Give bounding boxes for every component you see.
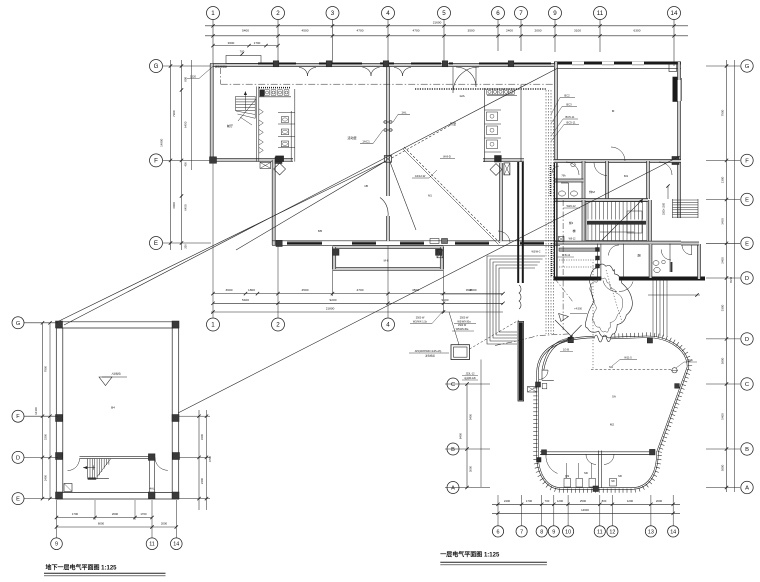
shaft box — [504, 163, 510, 175]
pilaster column 1 — [273, 61, 279, 67]
wall playroom left — [272, 160, 275, 245]
hall node top — [568, 337, 573, 342]
cable label BC5-11 — [551, 115, 578, 136]
right axis circle C — [741, 378, 753, 390]
toilet4 wall — [669, 244, 671, 272]
hall curved wall outer — [538, 337, 689, 489]
vestibule wall — [598, 244, 601, 280]
hall node right — [675, 384, 680, 389]
right axis circle D — [741, 272, 753, 284]
basement bottom extender 14 — [175, 500, 177, 538]
svg-text:4: 4 — [386, 10, 390, 17]
svg-text:11: 11 — [597, 529, 603, 535]
svg-text:3000: 3000 — [721, 464, 725, 471]
label 1AC — [360, 130, 383, 144]
wire leader D3 (basement corner to junction box) — [57, 161, 386, 322]
svg-text:76A: 76A — [561, 175, 566, 178]
left axis line G — [163, 65, 211, 67]
svg-text:A: A — [451, 486, 455, 492]
basement panel box — [64, 484, 72, 492]
left axis circle F — [150, 154, 163, 167]
double door below — [603, 281, 633, 292]
sill fixture 1 — [430, 239, 439, 244]
wire leader D1 (basement corner to right section) — [64, 68, 558, 325]
svg-text:3450: 3450 — [721, 218, 725, 225]
transformer box AP1 — [451, 345, 470, 360]
lower axis circle 11 — [594, 526, 605, 537]
label W11-5 — [612, 356, 637, 367]
mid axis extender 2 — [277, 246, 279, 318]
basement column 3 — [56, 415, 63, 422]
box with X near entrance — [528, 387, 537, 393]
svg-text:7: 7 — [520, 529, 523, 535]
right section interior wall — [554, 160, 681, 163]
lower-left dim chain — [459, 382, 473, 489]
svg-text:1300: 1300 — [721, 176, 725, 183]
label 1AL — [393, 111, 410, 123]
grid line 3 — [332, 20, 334, 66]
axis circle 3 — [326, 7, 339, 20]
accordion door arcs — [519, 285, 521, 309]
svg-text:C: C — [451, 382, 455, 388]
mid axis circle 2 — [272, 318, 285, 331]
lower right side wall — [698, 244, 701, 279]
corridor wall pair — [518, 162, 523, 283]
svg-text:3300: 3300 — [200, 433, 204, 440]
door arc rs-1 — [566, 162, 579, 175]
lower axis circle 7 — [516, 526, 527, 537]
svg-text:发电机组: 发电机组 — [425, 354, 435, 358]
svg-text:14: 14 — [671, 10, 678, 17]
svg-text:3100: 3100 — [574, 28, 581, 32]
svg-text:3: 3 — [331, 10, 335, 17]
corner box mid-right — [672, 157, 679, 165]
svg-text:5: 5 — [442, 10, 446, 17]
right axis circle G — [741, 60, 753, 72]
protrusion room — [333, 246, 444, 271]
wire from box up — [449, 312, 459, 345]
stair labels — [563, 204, 580, 225]
lower axis extender 8 — [541, 495, 543, 526]
svg-text:7900: 7900 — [44, 365, 48, 372]
diamond symbol 1 — [274, 163, 286, 175]
entrance curve — [542, 338, 570, 370]
right section right wall — [677, 62, 682, 218]
toilet room wall — [554, 161, 585, 199]
svg-text:BC3: BC3 — [566, 103, 572, 107]
svg-text:M: M — [612, 109, 615, 113]
wire solid X1 companion — [403, 149, 499, 245]
lower axis extender 7 — [521, 495, 523, 526]
grid line 1 — [212, 20, 214, 66]
svg-text:2: 2 — [276, 10, 280, 17]
cable label BC3 — [551, 103, 577, 124]
svg-text:休M: 休M — [589, 189, 595, 194]
corner column A — [210, 157, 217, 164]
svg-text:4AL: 4AL — [150, 487, 155, 491]
grid line 11 — [599, 20, 601, 52]
mid axis extender 1 — [212, 163, 214, 318]
svg-text:2: 2 — [276, 322, 280, 329]
lower-left axis circle B — [447, 443, 459, 455]
svg-text:W11-5: W11-5 — [624, 356, 632, 360]
wire dashed X2 — [390, 125, 450, 159]
axis circle 7 — [515, 7, 528, 20]
svg-text:建筑物辅助: 建筑物辅助 — [215, 65, 228, 69]
svg-text:3600: 3600 — [226, 288, 233, 292]
label C leader — [452, 324, 474, 331]
svg-text:1520: 1520 — [190, 75, 196, 79]
hall curved wall inner — [538, 337, 689, 489]
grid line 5 — [443, 20, 445, 62]
basement axis line D — [24, 456, 58, 458]
svg-text:800: 800 — [184, 76, 188, 81]
label BC5 right — [676, 358, 697, 368]
pilaster column 5 — [508, 61, 514, 67]
junction box main — [384, 156, 391, 163]
svg-text:M2: M2 — [610, 423, 614, 427]
dotted diag along canopy — [606, 270, 622, 322]
svg-text:G: G — [154, 63, 159, 70]
grid line 4 — [387, 20, 389, 66]
basement bottom dim row1 — [55, 512, 154, 519]
svg-text:2500: 2500 — [580, 499, 587, 503]
cable label BC5-11 — [551, 121, 579, 142]
hall curve node — [537, 458, 542, 463]
svg-text:5400: 5400 — [242, 28, 249, 32]
basement column 5 — [56, 492, 63, 499]
wire box down — [480, 360, 482, 488]
protrusion column L — [333, 249, 340, 256]
svg-text:1: 1 — [211, 10, 215, 17]
axis dash-dot line G — [221, 68, 553, 84]
svg-text:M5: M5 — [318, 229, 323, 233]
svg-text:14100: 14100 — [34, 407, 38, 415]
staircase 1 (lobby) — [236, 91, 256, 125]
basement column 6 — [172, 492, 179, 499]
basement outer wall left — [56, 322, 63, 499]
basement axis line E — [24, 498, 58, 500]
room wall kitchen — [649, 244, 652, 278]
svg-text:W26-12: W26-12 — [566, 204, 576, 208]
svg-text:9: 9 — [55, 542, 58, 548]
svg-text:3600: 3600 — [228, 41, 235, 45]
label AP1 — [409, 350, 449, 358]
basement axis circle D — [12, 451, 24, 463]
svg-text:2400: 2400 — [506, 28, 513, 32]
svg-text:F: F — [16, 414, 20, 420]
label 4500 leader — [440, 288, 503, 294]
svg-text:5400: 5400 — [721, 413, 725, 420]
basement bottom dim row2 — [55, 522, 178, 529]
svg-text:6900: 6900 — [172, 202, 176, 209]
exterior stair right — [673, 199, 699, 218]
lower axis extender 11 — [599, 495, 601, 526]
basement mid column top — [148, 454, 155, 461]
hall node south — [593, 486, 599, 492]
svg-text:B: B — [451, 447, 455, 453]
svg-text:E: E — [745, 241, 749, 247]
hall south wall — [540, 452, 654, 455]
svg-text:E: E — [154, 240, 158, 247]
tree canopy blob — [585, 264, 632, 338]
hall dashed line — [591, 365, 671, 370]
svg-text:700: 700 — [240, 50, 245, 54]
svg-text:4500: 4500 — [412, 288, 419, 292]
toilet 2 block — [485, 85, 522, 162]
svg-text:3300: 3300 — [44, 433, 48, 440]
room hatch band — [550, 165, 552, 197]
svg-text:M6: M6 — [618, 474, 622, 478]
title underline 1 — [44, 573, 166, 576]
svg-text:6300: 6300 — [634, 28, 641, 32]
stair hall wall left — [582, 200, 585, 243]
wire from box dashed — [470, 320, 520, 349]
right axis circle A — [741, 481, 753, 493]
svg-text:5400: 5400 — [242, 298, 249, 302]
lower axis extender 9 — [553, 495, 555, 526]
svg-text:6450: 6450 — [184, 121, 188, 128]
svg-text:14: 14 — [670, 529, 676, 535]
svg-text:M1: M1 — [624, 174, 629, 178]
wire dashed X1 — [404, 147, 500, 243]
door arc lower-1 — [498, 231, 510, 243]
svg-text:8: 8 — [540, 529, 543, 535]
svg-text:梯2: 梯2 — [569, 221, 574, 225]
svg-text:2400: 2400 — [200, 477, 204, 484]
basement outer wall bottom — [56, 493, 179, 500]
svg-text:12A: 12A — [459, 94, 465, 98]
label W-B-12 — [558, 254, 574, 257]
svg-text:E: E — [745, 198, 749, 204]
right axis circle D — [741, 333, 753, 345]
basement outer wall right — [172, 322, 179, 499]
svg-text:2600: 2600 — [112, 512, 119, 516]
svg-text:1200: 1200 — [627, 499, 634, 503]
hall node west — [536, 382, 541, 387]
svg-text:3300+1500: 3300+1500 — [663, 202, 666, 215]
mid axis extender 4 — [387, 246, 389, 318]
axis circle 2 — [272, 7, 285, 20]
title underline 2 — [440, 562, 547, 565]
svg-text:1700: 1700 — [140, 512, 147, 516]
svg-text:活动室: 活动室 — [347, 135, 356, 140]
label W5W30 — [454, 317, 476, 324]
svg-text:21600: 21600 — [433, 21, 442, 25]
hatch band lower left — [551, 243, 553, 277]
corner box top-right — [669, 64, 677, 72]
lower axis extender 6 — [497, 495, 499, 526]
thin partition — [623, 244, 625, 278]
exterior steps — [653, 279, 667, 337]
lower-left axis line B — [445, 448, 490, 450]
pilaster column 4 — [442, 61, 448, 67]
dotted line vertical — [592, 262, 594, 370]
stair hall wall right — [649, 200, 652, 243]
svg-text:2000: 2000 — [535, 28, 542, 32]
leader to entrance col — [555, 320, 582, 341]
svg-text:7900: 7900 — [721, 109, 725, 116]
lower bottom dim row1 — [492, 499, 680, 506]
basement column 7 — [56, 453, 63, 460]
basement bottom extender 9 — [56, 500, 58, 538]
svg-text:7: 7 — [519, 10, 523, 17]
lower axis circle 14 — [668, 526, 679, 537]
window on right wall — [673, 77, 678, 102]
label 1G-B — [560, 348, 573, 352]
svg-text:9: 9 — [552, 529, 555, 535]
svg-text:前厅: 前厅 — [227, 123, 233, 128]
right dimension texts — [721, 109, 733, 471]
svg-text:21800: 21800 — [326, 307, 335, 311]
axis circle 14 — [668, 7, 681, 20]
svg-text:W5/W9-30a: W5/W9-30a — [456, 328, 469, 331]
svg-text:4700: 4700 — [357, 288, 364, 292]
svg-text:9100: 9100 — [442, 298, 449, 302]
double door 2 — [363, 68, 380, 77]
basement outer wall top — [56, 322, 179, 328]
door arc rs-2 — [659, 162, 672, 175]
basement staircase — [83, 459, 111, 480]
lower axis extender 10 — [567, 495, 569, 526]
svg-text:4700: 4700 — [208, 455, 212, 462]
svg-text:3000: 3000 — [469, 465, 473, 472]
label 1520 — [187, 66, 213, 78]
conduit bundle (nested runs) — [487, 256, 545, 344]
left axis circle G — [150, 60, 163, 73]
room divider wall a — [606, 161, 609, 199]
svg-text:700: 700 — [545, 499, 550, 503]
small box near entrance — [542, 383, 547, 388]
svg-text:2500 W: 2500 W — [460, 317, 469, 320]
svg-text:C: C — [745, 382, 749, 388]
svg-text:C4/12-W: C4/12-W — [415, 174, 426, 178]
basement left dim chain — [34, 321, 52, 500]
basement bottom circle 9 — [51, 538, 63, 550]
hall node bottomL — [542, 450, 547, 455]
basement bottom circle 11 — [146, 538, 158, 550]
svg-text:4500: 4500 — [466, 288, 473, 292]
svg-text:1B: 1B — [364, 184, 368, 188]
bottom window wall — [272, 241, 560, 246]
svg-text:2400: 2400 — [44, 474, 48, 481]
diamond symbol 2 — [490, 164, 502, 176]
mid axis circle 1 — [207, 318, 220, 331]
left vertical dimension chain — [159, 60, 191, 250]
wire branch right — [390, 162, 416, 230]
basement interior wall — [80, 456, 150, 458]
mid horizontal wall — [554, 241, 681, 244]
svg-text:7200: 7200 — [172, 110, 176, 117]
basement column 4 — [172, 415, 179, 422]
left axis line F — [163, 159, 211, 161]
junction box stair — [559, 237, 577, 242]
lower-left axis line C — [445, 383, 490, 385]
junction squares column — [596, 248, 600, 269]
stair direction line — [602, 199, 643, 241]
basement column 1 — [56, 321, 63, 328]
svg-text:F: F — [745, 158, 749, 164]
svg-text:2500 W: 2500 W — [416, 317, 425, 320]
axis circle 6 — [492, 7, 505, 20]
door arc toilet4 — [661, 250, 671, 261]
svg-text:4700: 4700 — [413, 28, 420, 32]
hall south fixtures — [564, 463, 617, 487]
corner column C — [276, 240, 282, 246]
right section left wall — [555, 62, 558, 162]
svg-text:4: 4 — [386, 322, 390, 329]
corner column B — [275, 157, 282, 164]
svg-text:1G-B: 1G-B — [563, 348, 569, 352]
svg-text:M6: M6 — [584, 471, 588, 475]
protrusion column R — [436, 249, 443, 256]
svg-text:1700: 1700 — [72, 512, 79, 516]
basement door arc left — [68, 459, 80, 471]
basement axis circle E — [12, 493, 24, 505]
svg-text:BC2: BC2 — [564, 94, 570, 98]
svg-text:厨: 厨 — [637, 253, 640, 258]
cable label BC2 — [551, 94, 575, 115]
svg-text:地下一层电气平面图 1:125: 地下一层电气平面图 1:125 — [46, 564, 118, 572]
svg-text:1700: 1700 — [254, 41, 261, 45]
svg-text:1: 1 — [211, 322, 215, 329]
svg-text:B: B — [745, 447, 749, 453]
lower-left axis line A — [445, 487, 490, 489]
lower bottom dim row2 — [492, 508, 680, 515]
svg-text:11: 11 — [149, 542, 155, 548]
svg-text:W2/WX-1.1b: W2/WX-1.1b — [413, 321, 428, 324]
svg-text:2400: 2400 — [721, 257, 725, 264]
svg-text:2400: 2400 — [504, 499, 511, 503]
mid extender 3 — [332, 246, 334, 296]
wire branch left — [236, 161, 386, 250]
svg-text:1800: 1800 — [248, 288, 255, 292]
svg-text:D: D — [745, 337, 749, 343]
svg-text:M1: M1 — [428, 194, 432, 198]
svg-text:A: A — [745, 486, 749, 492]
svg-text:B4: B4 — [111, 406, 115, 410]
pilaster column 2 — [326, 61, 332, 67]
hall curved wall plain outer — [538, 337, 595, 384]
sill fixture 2 — [442, 239, 448, 244]
label C4-12-W — [412, 170, 437, 178]
arrow triangle — [559, 314, 569, 322]
grid line 2 — [277, 20, 279, 66]
lower axis circle 8 — [536, 526, 547, 537]
hall node bottomR — [650, 449, 656, 455]
middle dimension chain row3 — [211, 307, 447, 314]
wall connect right — [681, 242, 699, 245]
wall right of big room — [500, 163, 503, 241]
exterior stair dim — [663, 184, 670, 215]
toilet 3 fixtures — [552, 162, 577, 198]
svg-text:3500: 3500 — [468, 28, 475, 32]
wire leader D2 (basement right wall to far room) — [178, 156, 680, 413]
staircase 2 (main) — [586, 202, 647, 241]
svg-text:一层电气平面图 1:125: 一层电气平面图 1:125 — [440, 551, 500, 559]
right vertical dimension chain — [706, 60, 740, 492]
double door 3 — [394, 68, 411, 77]
svg-text:4500: 4500 — [302, 28, 309, 32]
svg-text:F: F — [154, 158, 158, 165]
svg-text:14600: 14600 — [581, 508, 589, 512]
entrance door niche — [539, 370, 554, 380]
basement column 8 — [173, 453, 180, 460]
svg-text:2000: 2000 — [656, 499, 663, 503]
lower-left axis circle C — [447, 378, 459, 390]
lower-left axis circle A — [447, 482, 459, 494]
right axis circle F — [741, 154, 753, 166]
